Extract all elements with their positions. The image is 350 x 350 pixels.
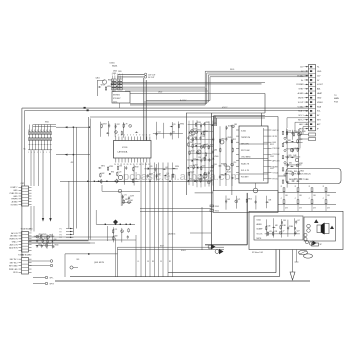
svg-text:IC301: IC301 [241, 130, 246, 132]
svg-text:PWR LED: PWR LED [9, 269, 18, 271]
svg-text:15: 15 [142, 164, 144, 166]
svg-text:ZD84: ZD84 [289, 226, 293, 228]
svg-text:VOL 5K: VOL 5K [257, 233, 264, 235]
svg-text:ZD99: ZD99 [197, 122, 201, 124]
svg-text:R309: R309 [215, 206, 219, 208]
svg-text:68 AMP: 68 AMP [257, 228, 264, 231]
svg-text:C3: C3 [147, 261, 149, 263]
svg-text:CVBS PB: CVBS PB [9, 193, 18, 195]
svg-text:H.VCC: H.VCC [222, 107, 228, 109]
svg-text:C23: C23 [118, 172, 121, 174]
svg-text:IC601: IC601 [257, 220, 262, 222]
svg-text:VR76: VR76 [42, 234, 46, 236]
svg-text:RST 100K: RST 100K [241, 150, 250, 152]
svg-text:ZD54: ZD54 [221, 174, 225, 176]
svg-text:R: R [43, 130, 44, 132]
svg-text:D801: D801 [113, 73, 117, 75]
svg-text:STR-W67: STR-W67 [113, 98, 120, 100]
svg-text:R: R [34, 130, 35, 132]
svg-text:D803: D803 [113, 71, 117, 73]
svg-text:6: 6 [130, 135, 131, 137]
svg-text:KEY IN 2: KEY IN 2 [10, 262, 18, 264]
svg-text:MAIN: MAIN [334, 97, 339, 100]
svg-text:ZD86: ZD86 [282, 225, 286, 227]
svg-text:H GND: H GND [297, 75, 304, 77]
svg-text:10: 10 [143, 135, 145, 137]
svg-text:21: 21 [124, 164, 126, 166]
svg-text:VT 104: VT 104 [273, 173, 279, 175]
svg-text:N0363 / 1.5KV TUBE: N0363 / 1.5KV TUBE [289, 179, 309, 181]
svg-text:ZD93: ZD93 [149, 174, 153, 176]
svg-text:SW REG: SW REG [113, 95, 121, 97]
svg-text:17: 17 [136, 164, 138, 166]
svg-text:Q801: Q801 [96, 78, 100, 80]
svg-text:ZD16: ZD16 [302, 131, 306, 133]
svg-text:P1: P1 [60, 228, 62, 230]
svg-text:ZD55: ZD55 [193, 129, 197, 131]
svg-text:11: 11 [146, 135, 148, 137]
svg-text:VR14: VR14 [248, 198, 252, 200]
svg-text:C14: C14 [233, 162, 236, 164]
svg-text:ZD43: ZD43 [227, 172, 231, 174]
svg-text:Q70: Q70 [210, 171, 213, 173]
svg-text:HT 1K: HT 1K [273, 179, 279, 181]
svg-text:V GND: V GND [298, 106, 305, 108]
svg-text:L73: L73 [189, 165, 192, 167]
svg-text:24: 24 [114, 164, 116, 166]
svg-text:KEY GND: KEY GND [9, 266, 18, 268]
svg-text:4R2: 4R2 [71, 162, 74, 164]
svg-text:C38: C38 [267, 226, 270, 228]
svg-text:VIDEO: VIDEO [317, 102, 323, 104]
svg-text:R810: R810 [108, 80, 112, 82]
svg-text:ABL: ABL [317, 88, 321, 91]
svg-text:16: 16 [139, 164, 141, 166]
svg-text:APA20: APA20 [257, 223, 262, 226]
svg-text:VR72: VR72 [101, 166, 105, 168]
svg-text:AV L IN: AV L IN [11, 232, 18, 235]
svg-text:SDA 1: SDA 1 [298, 110, 303, 113]
svg-text:VR59: VR59 [202, 158, 206, 160]
svg-text:R405: R405 [230, 69, 234, 71]
svg-text:VR11: VR11 [101, 85, 105, 87]
svg-text:B+115V: B+115V [180, 100, 187, 102]
svg-text:C805: C805 [118, 71, 122, 73]
svg-text:473: 473 [327, 207, 330, 209]
svg-text:D81: D81 [288, 140, 291, 142]
svg-text:473: 473 [299, 207, 302, 209]
svg-text:D56: D56 [190, 142, 193, 144]
svg-text:R: R [49, 130, 50, 132]
svg-text:STBY: STBY [299, 89, 305, 91]
svg-text:IC201: IC201 [122, 147, 128, 149]
svg-text:R22: R22 [202, 166, 205, 168]
svg-text:5V OUT: 5V OUT [148, 77, 155, 79]
svg-text:LA76810A: LA76810A [118, 151, 128, 154]
svg-text:19: 19 [130, 164, 132, 166]
svg-text:18: 18 [133, 164, 135, 166]
svg-text:L27: L27 [193, 158, 196, 160]
svg-text:L1: L1 [138, 261, 140, 263]
svg-text:D62: D62 [172, 132, 175, 134]
svg-text:GND: GND [13, 190, 18, 192]
svg-text:473: 473 [313, 207, 316, 209]
svg-text:473: 473 [285, 207, 288, 209]
svg-text:R: R [40, 130, 41, 132]
svg-text:SP 8ohm 10W: SP 8ohm 10W [252, 252, 263, 254]
svg-text:(AUDIO): (AUDIO) [168, 233, 176, 236]
svg-text:P20 10K: P20 10K [273, 148, 281, 150]
svg-text:C38: C38 [268, 200, 271, 202]
svg-text:ZD68: ZD68 [197, 143, 201, 145]
svg-text:VR24: VR24 [107, 86, 111, 88]
svg-text:P3: P3 [60, 234, 62, 236]
svg-text:YPBPR: YPBPR [11, 199, 18, 201]
svg-text:C5: C5 [160, 261, 162, 263]
svg-text:R96: R96 [111, 172, 114, 174]
svg-text:ZD79: ZD79 [130, 195, 134, 197]
svg-text:KEY 1K: KEY 1K [273, 130, 280, 132]
svg-text:L30: L30 [210, 180, 213, 182]
svg-text:D82: D82 [101, 173, 104, 175]
svg-text:D82: D82 [289, 163, 292, 165]
svg-text:VR21: VR21 [205, 122, 209, 124]
svg-text:R12: R12 [233, 139, 236, 141]
svg-text:ZD85: ZD85 [228, 125, 232, 127]
svg-text:C305: C305 [270, 156, 274, 158]
svg-text:R59: R59 [198, 130, 201, 132]
svg-text:C31: C31 [114, 229, 117, 231]
svg-text:Q34: Q34 [214, 164, 217, 166]
svg-text:C57: C57 [134, 178, 137, 180]
svg-text:3: 3 [117, 74, 118, 76]
svg-text:VR19: VR19 [134, 167, 138, 169]
svg-text:Q66: Q66 [214, 150, 217, 152]
svg-text:R: R [46, 130, 47, 132]
svg-text:R78: R78 [221, 164, 224, 166]
svg-text:P2: P2 [60, 231, 62, 233]
svg-text:R23: R23 [195, 164, 198, 166]
svg-text:R62: R62 [49, 235, 52, 237]
svg-text:KEY 2: KEY 2 [298, 120, 303, 122]
svg-text:ZD55: ZD55 [294, 131, 298, 133]
svg-text:C48: C48 [158, 174, 161, 176]
svg-text:A GND: A GND [298, 92, 305, 95]
svg-text:L82: L82 [189, 179, 192, 181]
svg-text:IC801: IC801 [110, 63, 115, 65]
svg-text:Q27: Q27 [296, 230, 299, 232]
svg-text:P4: P4 [60, 237, 62, 239]
svg-text:C93: C93 [119, 165, 122, 167]
svg-text:SCL 4.7K: SCL 4.7K [241, 170, 250, 172]
svg-text:TMP87CM: TMP87CM [241, 137, 250, 139]
svg-text:D41: D41 [130, 200, 133, 202]
svg-text:R2: R2 [169, 261, 171, 263]
svg-text:54 B+: 54 B+ [113, 101, 117, 103]
svg-text:VR13: VR13 [109, 166, 113, 168]
svg-text:C56: C56 [198, 157, 201, 159]
svg-text:VIDEO IN: VIDEO IN [9, 239, 18, 241]
svg-text:VR41: VR41 [227, 137, 231, 139]
svg-text:L29: L29 [202, 178, 205, 180]
svg-text:MUTE: MUTE [298, 97, 304, 99]
svg-text:D99: D99 [283, 220, 286, 222]
svg-text:GND: GND [317, 71, 322, 73]
svg-text:ZD20: ZD20 [190, 171, 194, 173]
svg-text:D71: D71 [237, 199, 240, 201]
svg-text:R65: R65 [289, 155, 292, 157]
svg-text:HEAT: HEAT [317, 92, 323, 95]
svg-text:AGC: AGC [299, 123, 304, 126]
svg-text:SDA 4.7K: SDA 4.7K [241, 162, 250, 165]
svg-text:R61: R61 [77, 259, 80, 261]
svg-text:8: 8 [136, 135, 137, 137]
svg-text:SP L: SP L [50, 278, 54, 280]
svg-text:R: R [37, 130, 38, 132]
svg-text:D81: D81 [227, 199, 230, 201]
svg-text:Q89: Q89 [234, 124, 237, 126]
svg-text:VR57: VR57 [103, 124, 107, 126]
svg-text:ZD13: ZD13 [191, 150, 195, 152]
svg-text:A GND: A GND [12, 201, 19, 204]
svg-text:P20 KEY: P20 KEY [241, 177, 249, 179]
svg-text:IF IN: IF IN [299, 128, 304, 130]
svg-text:T471 FLYBACK BSC25: T471 FLYBACK BSC25 [289, 173, 312, 176]
svg-text:R98: R98 [189, 136, 192, 138]
svg-text:Q29: Q29 [173, 124, 176, 126]
svg-text:R312: R312 [270, 144, 274, 146]
svg-text:VR82: VR82 [299, 163, 303, 165]
svg-text:20: 20 [127, 164, 129, 166]
svg-text:TO AV BOARD: TO AV BOARD [21, 228, 34, 231]
svg-text:ZD60: ZD60 [214, 156, 218, 158]
svg-text:D25: D25 [213, 123, 216, 125]
svg-text:VR40: VR40 [54, 244, 58, 246]
svg-text:R37: R37 [117, 124, 120, 126]
svg-text:R307: R307 [160, 245, 164, 247]
svg-text:IR IN: IR IN [13, 272, 18, 274]
svg-text:R18: R18 [205, 131, 208, 133]
svg-text:L81: L81 [205, 144, 208, 146]
svg-text:CN2: CN2 [21, 183, 25, 185]
svg-text:V.OUT: V.OUT [298, 102, 304, 104]
svg-text:C54: C54 [158, 131, 161, 133]
svg-text:L45: L45 [165, 167, 168, 169]
svg-text:CN4: CN4 [21, 255, 25, 257]
svg-text:C93: C93 [202, 136, 205, 138]
svg-text:SCL: SCL [317, 111, 321, 113]
svg-text:R68: R68 [114, 236, 117, 238]
svg-text:AUD L IN: AUD L IN [10, 243, 19, 246]
svg-text:pcbasic.en.alibaba.com: pcbasic.en.alibaba.com [123, 171, 240, 183]
svg-text:VR90: VR90 [175, 166, 179, 168]
svg-text:P21 10K: P21 10K [273, 154, 281, 156]
svg-text:COMP Y: COMP Y [10, 187, 18, 189]
svg-text:L79: L79 [125, 123, 128, 125]
svg-text:GND: GND [13, 196, 18, 198]
svg-text:3: 3 [121, 135, 122, 137]
svg-text:AUD R IN: AUD R IN [9, 246, 18, 249]
svg-text:R: R [31, 130, 32, 132]
svg-text:12: 12 [149, 135, 151, 137]
svg-text:D48: D48 [293, 155, 296, 157]
svg-text:R9: R9 [152, 261, 154, 263]
svg-text:VR22: VR22 [299, 139, 303, 141]
svg-text:GND: GND [317, 97, 322, 99]
svg-text:D83: D83 [294, 148, 297, 150]
svg-text:L88: L88 [275, 225, 278, 227]
svg-text:L26: L26 [288, 131, 291, 133]
svg-text:Q601 MUTE: Q601 MUTE [94, 262, 105, 264]
svg-text:SCL 1: SCL 1 [298, 115, 303, 117]
svg-text:R94: R94 [48, 243, 51, 245]
svg-text:AFT 473: AFT 473 [273, 159, 280, 162]
svg-text:R: R [28, 130, 29, 132]
svg-text:IR101: IR101 [181, 250, 186, 252]
svg-text:L19: L19 [269, 231, 272, 233]
svg-text:C38: C38 [274, 231, 277, 233]
svg-text:R801: R801 [45, 122, 49, 124]
svg-text:R310: R310 [215, 210, 219, 212]
svg-text:H.OUT: H.OUT [317, 84, 324, 86]
svg-text:R97: R97 [43, 244, 46, 246]
svg-text:D301: D301 [270, 168, 274, 170]
svg-text:VR44: VR44 [300, 170, 304, 172]
svg-text:VR94: VR94 [180, 124, 184, 126]
svg-text:KEY IN 1: KEY IN 1 [10, 259, 18, 261]
svg-text:L71: L71 [124, 194, 127, 196]
svg-text:L57: L57 [297, 220, 300, 222]
svg-text:POWER: POWER [296, 84, 304, 86]
svg-text:KA431: KA431 [112, 65, 117, 68]
svg-text:ZD82: ZD82 [210, 145, 214, 147]
svg-text:SP R: SP R [50, 284, 55, 286]
svg-text:GND 2: GND 2 [12, 242, 18, 244]
svg-text:5V REG: 5V REG [11, 204, 18, 206]
svg-text:L17: L17 [282, 230, 285, 232]
svg-text:AV GND: AV GND [10, 235, 18, 238]
svg-text:D802: D802 [158, 92, 162, 94]
